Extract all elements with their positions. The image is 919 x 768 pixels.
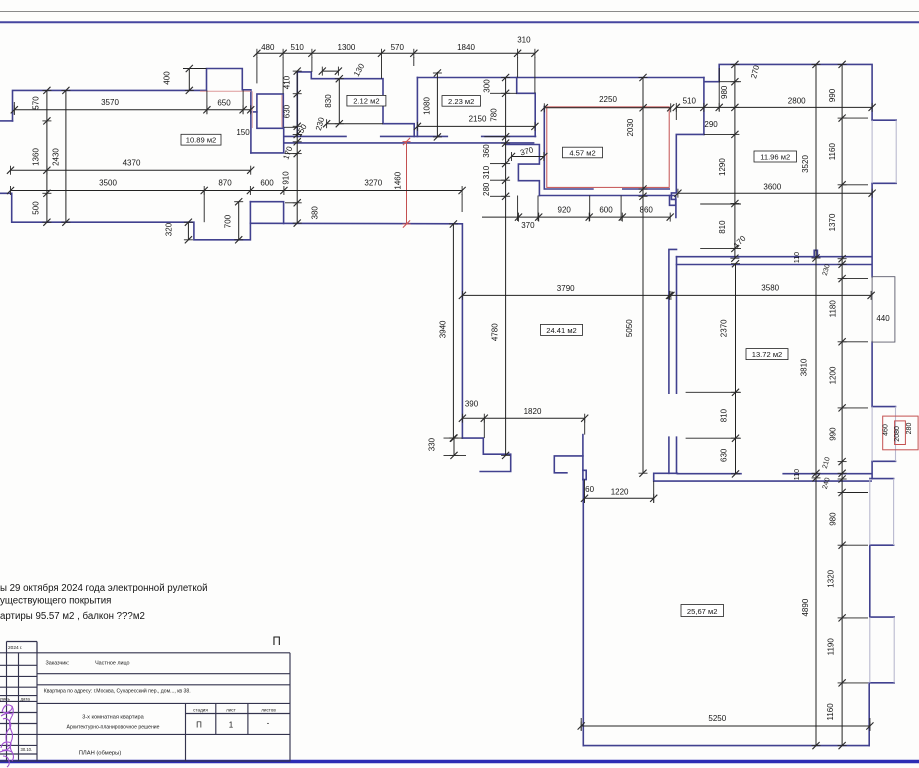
V17 <box>731 260 740 267</box>
svg-text:500: 500 <box>32 201 41 215</box>
svg-text:570: 570 <box>32 96 41 110</box>
D5 2250 <box>544 107 670 109</box>
room 24.41 bottom step <box>462 438 510 471</box>
mini dim above 2.12 <box>322 70 338 72</box>
D12 3580 <box>671 294 871 296</box>
V13 <box>838 61 847 68</box>
svg-text:370: 370 <box>519 145 535 157</box>
2024 cell above <box>7 642 38 653</box>
hall door jamb walls <box>554 456 583 473</box>
D6 <box>414 122 421 131</box>
corridor west vertical <box>251 128 284 153</box>
V7 <box>335 75 344 82</box>
D10 3600 <box>678 192 872 194</box>
D5 <box>541 103 548 112</box>
svg-text:600: 600 <box>599 205 613 214</box>
svg-text:980: 980 <box>720 85 729 99</box>
main outline <box>0 652 290 654</box>
svg-text:360: 360 <box>482 144 491 158</box>
D3 <box>7 186 14 195</box>
room 11.96 west wall <box>671 134 704 217</box>
V19 330 <box>453 438 455 455</box>
D4 <box>253 49 260 58</box>
mini dim 230 <box>327 123 383 125</box>
svg-text:2030: 2030 <box>626 118 635 136</box>
svg-text:дпись: дпись <box>0 696 11 701</box>
D7 920/600/860 <box>482 216 670 218</box>
room area labels <box>181 95 797 616</box>
svg-text:990: 990 <box>828 88 837 102</box>
svg-text:3810: 3810 <box>800 358 809 376</box>
svg-text:410: 410 <box>283 75 292 89</box>
svg-text:700: 700 <box>224 214 233 228</box>
east wall bump4-bump5 <box>869 545 871 617</box>
shaft top <box>250 202 283 224</box>
east wing upper walls <box>704 64 872 134</box>
svg-text:980: 980 <box>828 512 837 526</box>
svg-text:390: 390 <box>465 400 479 409</box>
corridor lower wall <box>284 142 534 144</box>
red vertical line 1460 <box>406 142 408 225</box>
svg-text:2.23 м2: 2.23 м2 <box>448 97 474 106</box>
D9 <box>673 103 680 112</box>
svg-text:650: 650 <box>217 98 231 107</box>
V12 <box>812 61 821 68</box>
svg-text:1160: 1160 <box>826 703 835 721</box>
D6 2150 <box>417 125 535 127</box>
svg-text:1300: 1300 <box>338 43 356 52</box>
svg-text:ы 29 октября 2024 года электро: ы 29 октября 2024 года электронной рулет… <box>0 583 208 594</box>
V9+V15 300/780/360/310/280 + 4780 <box>505 78 507 456</box>
V6 410/630/150/170/910/380 chain <box>296 71 298 223</box>
niche box <box>257 94 283 128</box>
V2 <box>61 87 70 94</box>
svg-text:1320: 1320 <box>827 569 836 587</box>
left strip rows <box>0 664 37 666</box>
svg-text:270: 270 <box>749 64 761 80</box>
svg-text:3570: 3570 <box>101 98 119 107</box>
svg-text:Заказчик:: Заказчик: <box>46 660 70 666</box>
D3 3500/870/600/3270 <box>10 190 462 192</box>
svg-text:1180: 1180 <box>828 300 837 318</box>
V12 3520/3810/4890 line <box>815 64 817 745</box>
V4 <box>184 219 193 226</box>
svg-text:290: 290 <box>704 120 718 129</box>
pink niche edge <box>281 95 283 127</box>
room 13.72 bottom double wall <box>654 473 871 481</box>
pink window line top <box>200 90 251 92</box>
svg-text:230: 230 <box>822 263 832 276</box>
D11 3790 <box>462 294 669 296</box>
svg-text:3270: 3270 <box>364 178 382 187</box>
svg-text:60: 60 <box>585 485 594 494</box>
svg-text:630: 630 <box>720 448 729 462</box>
D13 390/1820 <box>462 417 584 419</box>
room 2.23 left wall <box>416 78 418 137</box>
svg-text:1840: 1840 <box>457 43 475 52</box>
pink edge right of wall 251 <box>251 91 253 128</box>
svg-text:780: 780 <box>490 108 499 122</box>
V7 830 <box>338 79 340 124</box>
svg-text:510: 510 <box>683 96 697 105</box>
D8 <box>508 152 515 161</box>
svg-text:860: 860 <box>640 205 654 214</box>
svg-text:1370: 1370 <box>828 213 837 231</box>
svg-text:280: 280 <box>906 423 913 435</box>
svg-text:4370: 4370 <box>123 159 141 168</box>
svg-text:1460: 1460 <box>394 171 403 189</box>
V1 570/1360/500 <box>46 90 48 222</box>
svg-text:310: 310 <box>482 165 491 179</box>
svg-text:810: 810 <box>720 408 729 422</box>
svg-text:10.89 м2: 10.89 м2 <box>186 136 217 145</box>
V8 <box>433 69 442 76</box>
svg-text:П: П <box>196 721 202 730</box>
svg-text:920: 920 <box>558 205 572 214</box>
V3 400 <box>188 69 190 91</box>
svg-text:4780: 4780 <box>491 323 500 341</box>
svg-text:1080: 1080 <box>423 97 432 115</box>
D15 5250 <box>581 725 870 727</box>
svg-text:3520: 3520 <box>801 155 810 173</box>
bathroom left wall <box>543 107 545 189</box>
east wall between bump2-bump3 <box>871 342 873 407</box>
svg-text:3940: 3940 <box>439 320 448 338</box>
red door box right <box>883 416 918 450</box>
svg-text:1190: 1190 <box>827 638 836 656</box>
svg-text:1820: 1820 <box>524 407 542 416</box>
D2 <box>7 166 14 175</box>
room 13.72 west double wall lower <box>669 437 677 473</box>
bottom-left note texts <box>0 583 208 622</box>
V14 <box>449 220 458 227</box>
D1 3570/650 line <box>14 109 251 111</box>
svg-text:480: 480 <box>261 43 275 52</box>
V15 <box>501 452 510 459</box>
svg-text:11.96 м2: 11.96 м2 <box>760 152 790 161</box>
balcony bump1 <box>872 119 896 121</box>
wall pocket right of bathroom <box>670 196 676 206</box>
svg-text:1220: 1220 <box>611 488 629 497</box>
svg-text:3580: 3580 <box>761 283 779 292</box>
svg-text:24.41 м2: 24.41 м2 <box>546 326 577 335</box>
svg-text:870: 870 <box>218 178 232 187</box>
V1 <box>42 87 51 94</box>
V10+V16 2030 + 5050 <box>642 78 644 474</box>
bathroom niche stairs <box>506 145 540 196</box>
V4 320 <box>187 222 189 240</box>
svg-text:дата: дата <box>21 696 31 701</box>
west lower notch <box>0 193 250 240</box>
D10 <box>674 189 681 198</box>
west wing top wall <box>13 69 251 153</box>
svg-text:4890: 4890 <box>801 598 810 616</box>
west wall notch left <box>0 120 13 122</box>
svg-text:3500: 3500 <box>99 178 117 187</box>
V13 east chain <box>841 64 843 745</box>
V5 700 <box>238 202 240 240</box>
shaft bottom + south wall to room 24.41 <box>250 223 462 438</box>
svg-text:130: 130 <box>352 62 367 79</box>
svg-text:510: 510 <box>291 43 305 52</box>
svg-text:13.72 м2: 13.72 м2 <box>752 350 783 359</box>
svg-text:лист: лист <box>226 708 237 713</box>
red labels <box>394 171 913 441</box>
svg-text:уществующего покрытия: уществующего покрытия <box>0 596 111 607</box>
svg-text:2024 г.: 2024 г. <box>8 645 23 651</box>
light wall edges (balcony outlines) <box>870 120 896 683</box>
svg-text:910: 910 <box>282 171 291 185</box>
svg-text:Квартира по адресу: г.Москва: Квартира по адресу: г.Москва, Сухаресски… <box>44 687 191 694</box>
svg-text:стадия: стадия <box>193 708 208 713</box>
bump5 edges <box>870 616 894 618</box>
4.57 top-left jog <box>517 78 536 137</box>
D4 top chain 480..1840/310 <box>257 52 535 54</box>
corridor upper wall segments <box>284 135 346 137</box>
svg-text:170: 170 <box>732 234 748 250</box>
svg-text:600: 600 <box>260 178 274 187</box>
svg-text:110: 110 <box>794 469 801 480</box>
svg-text:1160: 1160 <box>828 143 837 161</box>
page bottom border line <box>0 760 919 764</box>
room 13.72 west double wall upper <box>669 249 677 393</box>
svg-text:ПЛАН (обмеры): ПЛАН (обмеры) <box>79 750 122 756</box>
svg-text:370: 370 <box>521 221 535 230</box>
V19 <box>450 435 459 442</box>
east wall to bottom corner <box>868 683 870 746</box>
main area rows <box>37 673 290 675</box>
svg-text:150: 150 <box>236 128 250 137</box>
svg-text:П: П <box>273 636 281 648</box>
mini 130 <box>319 67 326 76</box>
svg-text:2800: 2800 <box>788 96 806 105</box>
svg-text:2150: 2150 <box>469 114 487 123</box>
D7 <box>515 213 522 222</box>
svg-text:1290: 1290 <box>718 158 727 176</box>
svg-text:листов: листов <box>261 708 276 713</box>
D11 <box>459 291 466 300</box>
V6 <box>293 68 302 75</box>
svg-text:Частное лицо: Частное лицо <box>95 660 129 666</box>
svg-text:5250: 5250 <box>708 714 726 723</box>
red measured rect room 4.57 <box>547 107 669 187</box>
D13 <box>459 414 466 423</box>
svg-text:830: 830 <box>324 94 333 108</box>
V14 3940 <box>452 224 454 438</box>
svg-text:3600: 3600 <box>763 183 781 192</box>
svg-text:25,67 м2: 25,67 м2 <box>687 607 718 616</box>
stub above 13.72 right wall <box>814 250 817 256</box>
D14 1220 <box>585 497 654 499</box>
niche connector <box>251 111 257 113</box>
svg-text:3-х комнатная квартира: 3-х комнатная квартира <box>82 714 144 720</box>
svg-text:4.57 м2: 4.57 м2 <box>569 149 595 158</box>
svg-text:300: 300 <box>483 79 492 93</box>
svg-text:2250: 2250 <box>599 95 617 104</box>
room 2.12 walls <box>297 72 414 136</box>
svg-text:320: 320 <box>164 222 173 236</box>
svg-text:30.10.: 30.10. <box>21 747 33 752</box>
D1 <box>11 105 18 114</box>
V10/V16 <box>639 74 648 81</box>
V3 <box>185 65 194 72</box>
room 25.67 left wall <box>582 480 584 746</box>
svg-text:2430: 2430 <box>52 148 61 166</box>
svg-text:110: 110 <box>794 252 801 263</box>
svg-text:артиры 95.57 м2 , балкон ???м: артиры 95.57 м2 , балкон ???м2 <box>0 611 145 622</box>
svg-text:240: 240 <box>822 477 832 490</box>
D2 4370 <box>10 169 251 171</box>
svg-text:990: 990 <box>828 427 837 441</box>
D12 <box>667 291 674 300</box>
long top wall over 2.23/4.57 <box>417 77 704 79</box>
svg-text:2370: 2370 <box>719 319 728 337</box>
V9 <box>501 74 510 81</box>
svg-text:330: 330 <box>428 437 437 451</box>
V5 <box>234 198 243 205</box>
svg-text:810: 810 <box>718 220 727 234</box>
V8 1080 <box>436 72 438 137</box>
stage table <box>185 703 187 761</box>
V11 <box>730 61 739 68</box>
room 25.67 bottom wall <box>583 745 869 747</box>
east wall between bump1-bump2 <box>871 183 873 276</box>
signature scribbles <box>0 705 14 767</box>
svg-text:5050: 5050 <box>625 319 634 337</box>
svg-text:630: 630 <box>283 104 292 118</box>
svg-text:3790: 3790 <box>557 284 575 293</box>
wall between 11.96 and 13.72 (double) <box>677 256 872 258</box>
D15 <box>578 722 585 731</box>
svg-text:310: 310 <box>517 36 531 45</box>
svg-text:570: 570 <box>391 43 405 52</box>
balcony bump2 thin dark outline <box>872 277 895 342</box>
D9 510/2800 <box>676 106 872 108</box>
svg-text:1: 1 <box>229 721 234 730</box>
svg-text:440: 440 <box>876 314 890 323</box>
svg-text:280: 280 <box>482 182 491 196</box>
V17 2370/810/630 <box>735 264 737 474</box>
svg-text:210: 210 <box>822 456 832 469</box>
svg-text:460: 460 <box>883 424 890 436</box>
svg-text:Архитектурно-планировочное реш: Архитектурно-планировочное решение <box>67 724 160 730</box>
svg-text:400: 400 <box>163 71 172 85</box>
D14 <box>581 494 588 503</box>
page top border lines <box>0 11 919 13</box>
east wall bump3-bump4 <box>871 461 873 478</box>
bump4 edges <box>870 478 894 480</box>
svg-text:380: 380 <box>311 206 320 220</box>
bathroom bottom walls <box>544 188 593 190</box>
svg-text:230: 230 <box>314 116 326 132</box>
left strip verticals <box>6 653 8 761</box>
svg-text:1360: 1360 <box>32 148 41 166</box>
svg-text:1200: 1200 <box>828 366 837 384</box>
svg-text:-: - <box>267 719 270 728</box>
svg-text:2.12 м2: 2.12 м2 <box>353 97 379 106</box>
svg-text:2080: 2080 <box>894 426 901 442</box>
bump3 edges <box>872 406 895 408</box>
V11 980/1290/810 chain <box>734 64 736 258</box>
V2 2430 <box>65 90 67 222</box>
D8 370 small <box>512 156 544 158</box>
